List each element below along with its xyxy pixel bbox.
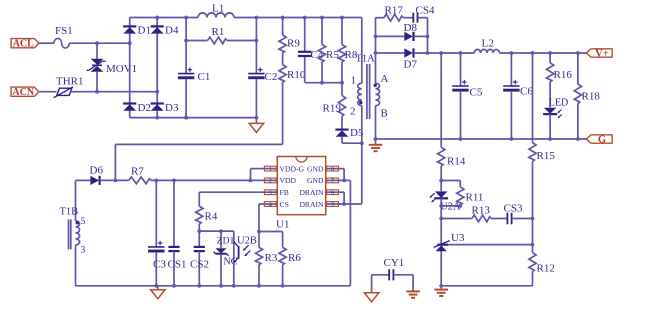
svg-text:CS3: CS3 (504, 203, 523, 215)
ground primary rail (151, 286, 165, 299)
svg-text:R15: R15 (537, 150, 556, 162)
svg-text:7: 7 (331, 178, 334, 185)
svg-text:R13: R13 (472, 205, 491, 217)
fuse FS1 (54, 38, 69, 48)
wire R10 to D6 node (114, 83, 283, 183)
wire CY1 left (372, 275, 390, 290)
svg-text:C5: C5 (470, 87, 483, 99)
label D6 (90, 165, 104, 177)
svg-text:R1: R1 (212, 26, 225, 38)
label R3 (265, 252, 278, 264)
svg-text:U2A: U2A (440, 202, 461, 213)
wire C4R5 bottom (305, 82, 342, 84)
label R18 (582, 91, 601, 103)
wire CS3 right (512, 217, 535, 221)
svg-text:5: 5 (81, 217, 86, 227)
capacitor CY1 (389, 269, 393, 280)
pin 5 box (326, 201, 339, 208)
thermistor THR1 (54, 87, 74, 98)
svg-text:D6: D6 (90, 165, 104, 177)
wire thermistor to bridge (71, 90, 160, 94)
resistor R10 (279, 65, 286, 83)
wire primary bottom (360, 106, 364, 146)
label CS3 (504, 203, 523, 215)
label L2 (482, 38, 494, 50)
zener ZD1 (214, 231, 229, 286)
label U2A (440, 202, 461, 213)
wire CY1 right (393, 275, 413, 289)
transformer T1A core (367, 64, 370, 119)
svg-text:V+: V+ (595, 49, 609, 60)
label T1A (356, 54, 376, 65)
diode D5 (335, 116, 348, 137)
wire R14 to LED node (439, 166, 443, 182)
svg-text:D4: D4 (165, 25, 179, 37)
resistor R17 (384, 14, 403, 21)
port G (586, 135, 612, 146)
transformer T1B winding (76, 221, 80, 245)
label D2 (138, 102, 151, 114)
label C2 (265, 71, 278, 83)
wire D8 right (414, 35, 428, 37)
wire ACN to thermistor (39, 91, 57, 93)
svg-text:R10: R10 (287, 69, 306, 81)
svg-text:C1: C1 (198, 71, 211, 83)
resistor R8 (338, 18, 345, 85)
svg-text:LED: LED (549, 97, 568, 108)
pin 8 box (326, 166, 339, 173)
label R6 (288, 252, 301, 264)
label C1 (198, 71, 211, 83)
wire output ground rail (376, 138, 587, 140)
svg-text:THR1: THR1 (56, 76, 84, 88)
label R1 (212, 26, 225, 38)
resistor R12 (529, 253, 536, 272)
wire secondary bottom (374, 106, 378, 141)
wire secondary top (374, 18, 378, 84)
label CS1 (168, 259, 187, 271)
resistor R3 (255, 232, 262, 288)
wire D7 left (376, 52, 405, 54)
label R16 (554, 69, 573, 81)
optocoupler U2A LED (430, 181, 448, 208)
resistor R1 (208, 37, 228, 44)
wire bridge left vertical (129, 18, 131, 118)
svg-text:ZD1: ZD1 (217, 237, 235, 247)
svg-text:VDD-G: VDD-G (280, 164, 305, 173)
svg-text:2: 2 (269, 178, 272, 185)
capacitor CS2 (194, 231, 205, 286)
label R12 (537, 263, 555, 275)
svg-text:3: 3 (81, 246, 86, 256)
diode D3 (151, 104, 164, 111)
svg-text:D7: D7 (404, 59, 418, 71)
wire GND down (349, 180, 351, 285)
label C6 (520, 86, 533, 98)
svg-text:CS1: CS1 (168, 259, 187, 271)
label D4 (165, 25, 179, 37)
svg-text:L2: L2 (482, 38, 494, 50)
wire C2 vertical (255, 18, 259, 120)
pin 4 box (264, 201, 277, 208)
svg-text:D3: D3 (165, 102, 179, 114)
IC U1 left pin names (280, 164, 305, 208)
transformer T1A primary winding (358, 83, 363, 105)
svg-text:GND: GND (307, 164, 324, 173)
label LED (549, 97, 568, 108)
wire ACL to fuse (39, 42, 54, 44)
resistor R6 (279, 232, 286, 288)
svg-text:R16: R16 (554, 69, 573, 81)
label C4 (311, 49, 324, 61)
pin 2 box (264, 178, 277, 185)
svg-text:C2: C2 (265, 71, 278, 83)
label secondary pin A (381, 73, 389, 85)
svg-text:8: 8 (331, 166, 334, 173)
capacitor C3 (148, 180, 164, 285)
shunt regulator U3 (434, 241, 450, 252)
wire output post-L2 (500, 51, 587, 55)
ground T1A secondary (369, 139, 383, 151)
IC U1 body (277, 157, 325, 215)
svg-text:R12: R12 (537, 263, 555, 275)
label FS1 (55, 25, 73, 37)
svg-text:VDD: VDD (280, 176, 297, 185)
label R11 (466, 192, 484, 204)
wire R9 top (282, 18, 284, 36)
svg-text:CS2: CS2 (190, 259, 209, 271)
svg-text:R3: R3 (265, 252, 278, 264)
wire R4 bottom node (197, 224, 233, 233)
svg-text:R7: R7 (131, 166, 144, 178)
wire R1 right (227, 39, 258, 43)
wire R13 left (441, 218, 472, 220)
wire output pre-L2 (414, 51, 475, 55)
resistor R4 (196, 206, 203, 224)
svg-text:L1: L1 (212, 3, 224, 15)
svg-text:R4: R4 (205, 211, 218, 223)
label R7 (131, 166, 144, 178)
capacitor CS3 (507, 213, 511, 225)
ground CY1 primary (364, 289, 378, 301)
port V+ (586, 49, 612, 60)
wire R13 to CS3 (491, 218, 507, 220)
label R19 (323, 103, 342, 115)
capacitor CS4 (413, 13, 417, 23)
label D3 (165, 102, 179, 114)
wire R9-R10 (282, 53, 284, 65)
pin 7 box (326, 178, 339, 185)
wire T1B left top (75, 180, 77, 221)
wire top rail right (184, 16, 362, 20)
label R10 (287, 69, 306, 81)
pin 3 box (264, 190, 277, 197)
label R8 (345, 49, 358, 61)
resistor R15 (529, 51, 536, 218)
wire C4 vertical (304, 18, 306, 83)
svg-text:D2: D2 (138, 102, 151, 114)
svg-text:R17: R17 (385, 5, 404, 17)
wire VDD net (151, 179, 264, 183)
svg-text:1: 1 (351, 75, 357, 87)
wire R17 to CS4 (403, 17, 413, 19)
LED indicator (543, 82, 562, 118)
port ACN (11, 87, 39, 98)
svg-text:1: 1 (269, 166, 272, 173)
wire bridge bottom rail (130, 116, 257, 120)
wire pin1 to VDD (251, 169, 265, 181)
svg-text:5: 5 (331, 201, 334, 208)
svg-text:U2B: U2B (237, 236, 257, 247)
diode D8 (404, 32, 413, 41)
svg-text:FB: FB (280, 188, 289, 197)
svg-text:CS: CS (280, 200, 289, 209)
label ZD1 (217, 237, 235, 247)
svg-text:MOV1: MOV1 (106, 63, 137, 75)
label T1B (60, 207, 79, 218)
capacitor C5 (452, 53, 468, 141)
wire GND pins (339, 169, 351, 183)
svg-text:T1B: T1B (60, 207, 79, 218)
resistor R11 (441, 181, 464, 208)
pin 6 box (326, 190, 339, 197)
capacitor CS1 (168, 180, 179, 285)
svg-text:T1A: T1A (356, 54, 376, 65)
svg-text:ACN: ACN (12, 87, 34, 98)
label R9 (287, 38, 300, 50)
wire bottom right rail (441, 285, 532, 287)
label T1B pin 3 (81, 246, 86, 256)
svg-text:A: A (381, 73, 389, 85)
wire R1 left (186, 40, 207, 42)
diode D1 (123, 26, 136, 33)
wire LED bottom (548, 114, 552, 141)
ground at C2 (249, 118, 263, 133)
label CS4 (416, 5, 435, 17)
capacitor C4 (298, 52, 312, 56)
label R13 (472, 205, 491, 217)
inductor L2 (474, 49, 499, 53)
capacitor C6 (503, 53, 519, 141)
label T1B pin 5 (81, 217, 86, 227)
inductor L1 (198, 13, 234, 18)
wire R14 top (440, 53, 442, 147)
wire D8 left (376, 35, 405, 37)
label NC (224, 257, 238, 268)
label R4 (205, 211, 218, 223)
svg-text:CY1: CY1 (384, 257, 405, 269)
label C5 (470, 87, 483, 99)
wire fuse to bridge (69, 41, 132, 45)
resistor R16 (547, 53, 554, 82)
svg-text:2: 2 (350, 106, 356, 118)
svg-text:R11: R11 (466, 192, 484, 204)
label primary pin 2 (350, 106, 356, 118)
varistor MOV1 (87, 41, 106, 93)
wire R12 bottom (532, 272, 534, 286)
optocoupler U2B transistor (234, 231, 250, 286)
diode D4 (151, 26, 164, 33)
wire top rail left (130, 17, 198, 19)
svg-text:DRAIN: DRAIN (299, 200, 324, 209)
wire D5 to drain node (342, 137, 362, 144)
label secondary pin B (381, 108, 388, 120)
transformer T1B core (69, 219, 71, 249)
wire FB net (199, 192, 264, 206)
label U3 (451, 232, 465, 244)
label R17 (385, 5, 404, 17)
wire DRAIN pins (339, 192, 362, 206)
wire CS4 right (418, 18, 430, 55)
svg-text:6: 6 (331, 190, 334, 197)
diode D6 (90, 176, 99, 185)
wire DRAIN up (361, 143, 363, 204)
svg-text:R18: R18 (582, 91, 601, 103)
svg-text:D1: D1 (138, 25, 151, 37)
wire U3 cathode down (439, 251, 443, 287)
svg-text:R19: R19 (323, 103, 342, 115)
label D7 (404, 59, 418, 71)
resistor R5 (318, 18, 325, 85)
wire D6 anode (76, 179, 91, 181)
diode D2 (123, 104, 136, 111)
label L1 (212, 3, 224, 15)
svg-text:R14: R14 (447, 156, 466, 168)
svg-text:4: 4 (269, 201, 272, 208)
wire bridge right vertical (155, 16, 159, 120)
label D8 (404, 22, 418, 34)
ground U3 (434, 286, 448, 296)
svg-text:GND: GND (307, 176, 324, 185)
label CY1 (384, 257, 405, 269)
label THR1 (56, 76, 84, 88)
svg-text:B: B (381, 108, 388, 120)
label D1 (138, 25, 151, 37)
label R14 (447, 156, 466, 168)
IC U1 right pin names (299, 164, 324, 208)
resistor R7 (129, 177, 151, 184)
svg-text:D8: D8 (404, 22, 418, 34)
svg-text:C6: C6 (520, 86, 533, 98)
wire C1 vertical (184, 18, 188, 120)
wire U2A to U3 (439, 206, 443, 244)
capacitor C1 (178, 67, 194, 79)
wire primary ground rail (76, 284, 351, 288)
svg-text:R9: R9 (287, 38, 300, 50)
svg-text:U3: U3 (451, 232, 465, 244)
label primary pin 1 (351, 75, 357, 87)
wire D6 to R7 (100, 179, 129, 181)
label CS2 (190, 259, 209, 271)
transformer T1A secondary winding (374, 83, 380, 105)
svg-text:FS1: FS1 (55, 25, 73, 37)
wire primary top (361, 18, 363, 84)
resistor R14 (438, 147, 445, 166)
label R5 (326, 49, 339, 61)
label U2B (237, 236, 257, 247)
label MOV1 (106, 63, 137, 75)
label D5 (350, 127, 364, 139)
wire CS net (257, 204, 283, 233)
diode D7 (404, 48, 413, 57)
svg-text:CS4: CS4 (416, 5, 435, 17)
svg-text:C3: C3 (153, 259, 166, 271)
svg-text:3: 3 (269, 190, 272, 197)
resistor R9 (279, 35, 286, 53)
pin 1 box (264, 166, 277, 173)
wire U3 ref (448, 243, 534, 247)
capacitor C2 (248, 67, 264, 79)
label R15 (537, 150, 556, 162)
wire R15 to R12 (532, 219, 534, 253)
ground CY1 secondary (406, 288, 420, 297)
label U1 (276, 219, 289, 231)
label C3 (153, 259, 166, 271)
svg-text:U1: U1 (276, 219, 289, 231)
svg-text:DRAIN: DRAIN (299, 188, 324, 197)
resistor R19 (338, 83, 345, 117)
wire R17 left (376, 17, 384, 19)
port ACL (11, 39, 39, 50)
resistor R18 (574, 53, 581, 141)
resistor R13 (472, 215, 491, 222)
svg-text:ACL: ACL (13, 39, 34, 50)
svg-text:G: G (598, 135, 606, 146)
wire T1B bottom (75, 245, 77, 286)
svg-text:R6: R6 (288, 252, 301, 264)
